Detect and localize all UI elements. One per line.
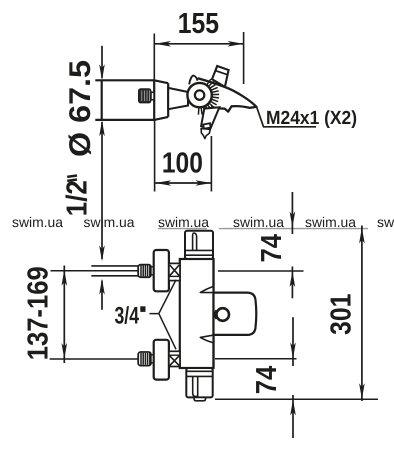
watermark underline bbox=[158, 228, 368, 230]
label 1/2" bbox=[62, 176, 94, 217]
label 301 bbox=[325, 294, 357, 336]
top supply: pipe lines bbox=[91, 266, 138, 276]
dimension 155 line bbox=[155, 41, 244, 47]
dimension 155 label bbox=[178, 8, 219, 40]
upper knob (diverter) bbox=[212, 66, 229, 87]
svg-text:155: 155 bbox=[178, 8, 219, 40]
extension right of 100 bbox=[210, 136, 212, 192]
svg-text:100: 100 bbox=[162, 147, 203, 179]
label 74 top bbox=[256, 234, 288, 263]
label 74 bottom bbox=[251, 366, 283, 395]
dimension 74 bottom arrows bbox=[290, 317, 296, 438]
svg-text:1/2: 1/2 bbox=[62, 180, 94, 216]
svg-text:M24x1 (X2): M24x1 (X2) bbox=[266, 108, 357, 129]
handle bbox=[214, 293, 257, 335]
right extension lines bbox=[215, 271, 378, 399]
top nipple bbox=[138, 265, 154, 278]
handle wedge top bbox=[200, 286, 213, 292]
valve head outer circle bbox=[187, 83, 211, 107]
svg-text:74: 74 bbox=[251, 366, 283, 395]
spout (top view) bbox=[198, 78, 257, 111]
svg-text:swim.ua: swim.ua bbox=[233, 214, 284, 230]
dimension 137-169 line bbox=[62, 266, 68, 364]
main body bbox=[180, 259, 214, 368]
extension line right of 155 bbox=[243, 32, 245, 84]
top cap bbox=[185, 231, 213, 259]
handle button circle bbox=[216, 308, 229, 321]
small dim arrow below pipes (x=102) bbox=[99, 279, 105, 310]
watermark texts bbox=[12, 214, 394, 230]
dimension line for 67.5 (vertical at x=102) bbox=[99, 46, 105, 262]
svg-text:sw: sw bbox=[377, 214, 394, 230]
bottom supply: extension line bbox=[50, 358, 139, 360]
handle wedge bottom bbox=[200, 335, 213, 343]
svg-text:swim.ua: swim.ua bbox=[158, 214, 209, 230]
bottom union nut bbox=[169, 351, 180, 366]
serration fan bbox=[198, 79, 219, 115]
top union nut bbox=[169, 263, 180, 280]
label diameter 67.5 bbox=[64, 60, 97, 157]
crest on valve head bbox=[189, 76, 197, 85]
bottom nub bbox=[194, 397, 205, 400]
svg-text:swim.ua: swim.ua bbox=[84, 214, 135, 230]
label 3/4 with leader bbox=[115, 280, 177, 350]
neck (top view) bbox=[168, 88, 188, 109]
lower knob bbox=[201, 107, 219, 138]
dimension 74 top arrows bbox=[290, 192, 296, 298]
dimension 100 line bbox=[155, 180, 211, 186]
svg-text:3/4: 3/4 bbox=[115, 303, 140, 330]
extension line left of 155/100 bbox=[153, 34, 155, 192]
label 137-169 bbox=[23, 266, 55, 360]
label M24x1 (X2) with leader bbox=[256, 106, 357, 129]
svg-text:swim.ua: swim.ua bbox=[12, 214, 63, 230]
dimension 301 line bbox=[359, 226, 365, 402]
bottom cap bbox=[186, 368, 212, 397]
svg-text:74: 74 bbox=[256, 234, 288, 263]
svg-text:137-169: 137-169 bbox=[23, 266, 55, 360]
bottom nipple bbox=[138, 352, 154, 366]
svg-text:301: 301 bbox=[325, 294, 357, 336]
body cylinder (top view) bbox=[95, 80, 168, 120]
crescent left of circle bbox=[215, 310, 216, 319]
top extension line (pipe centre) bbox=[51, 270, 139, 272]
top escutcheon bbox=[154, 250, 169, 291]
svg-text:Ø 67.5: Ø 67.5 bbox=[64, 60, 97, 157]
svg-text:swim.ua: swim.ua bbox=[305, 214, 356, 230]
knob on cylinder bbox=[139, 89, 154, 103]
bottom escutcheon bbox=[154, 340, 169, 380]
collar bbox=[154, 80, 168, 83]
valve head inner circle bbox=[195, 90, 204, 99]
dimension 100 label bbox=[162, 147, 203, 179]
